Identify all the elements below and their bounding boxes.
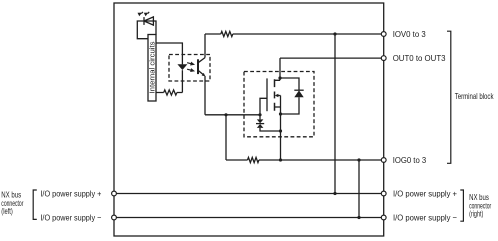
wire body-diode branch [280,78,299,114]
wire zener branch [260,115,281,131]
wire I/O power supply + line [116,193,381,195]
svg-text:I/O power supply −: I/O power supply − [393,213,457,223]
wire IOV line (collector to IOV0 terminal) [205,33,381,35]
wire IOG-to-minus vertical [358,160,360,218]
MOSFET channel segments [274,79,276,111]
terminal I/O power supply - right [381,215,386,220]
bracket terminal block [447,31,451,163]
wire opto LED drive [156,43,182,64]
wire OUT line (drain to OUT0 terminal) [280,57,381,59]
junction zener return [279,129,282,132]
svg-text:I/O power supply +: I/O power supply + [393,189,457,199]
wire indicator LED loop [137,21,156,39]
phototransistor base bar [197,59,199,74]
phototransistor collector [198,58,205,63]
wire IOG line (to IOG0 terminal) [226,159,381,161]
wire collector vertical [204,34,206,58]
MOSFET body arrowhead [275,94,279,97]
terminal IOV0 [381,32,386,37]
junction plus line [333,192,336,195]
MOSFET dashed box [244,72,314,137]
junction gate-zener [258,113,261,116]
wire drain vertical [275,58,281,80]
svg-text:Terminal block: Terminal block [455,91,494,101]
svg-text:IOV0 to 3: IOV0 to 3 [393,29,426,39]
svg-text:(right): (right) [469,209,483,219]
wire body stub [276,95,281,97]
indicator LED emission arrow 2 [144,13,149,17]
optocoupler LED triangle [177,64,187,70]
phototransistor emitter [198,70,204,75]
junction minus line [357,216,360,219]
internal circuits block [148,35,156,102]
bracket NX bus right [460,190,463,221]
junction diode anode-source [279,112,282,115]
phototransistor emitter arrowhead [202,73,206,76]
svg-text:I/O power supply +: I/O power supply + [40,189,101,199]
zener triangle lower [257,124,264,128]
indicator LED triangle [144,17,153,25]
outer block box [114,3,384,236]
indicator LED cathode bar [143,17,145,25]
svg-text:Internal circuits: Internal circuits [150,41,157,94]
bracket NX bus left [33,190,37,219]
terminal I/O power supply - left [112,215,117,220]
svg-text:I/O power supply −: I/O power supply − [40,213,101,223]
zener bar [256,123,264,125]
indicator LED emission arrow 1 [138,13,143,17]
optocoupler dashed box [169,55,210,82]
wire opto return lead [156,92,182,94]
junction drain-diode [278,76,281,79]
MOSFET gate plate [266,78,268,111]
svg-text:IOG0 to 3: IOG0 to 3 [393,155,427,165]
junction source-IOG [279,158,282,161]
opto light arrow 1 [187,61,196,67]
wire gate pulldown branch [225,115,227,160]
resistor R-opto [164,90,177,95]
resistor R-collector [221,31,233,36]
wire IOV-to-plus vertical [334,34,336,194]
terminal OUT0 [381,56,386,61]
junction IOV vertical [333,32,336,35]
wire source stub [275,106,281,108]
terminal IOG0 [381,158,386,163]
wire emitter vertical [204,76,206,115]
terminal I/O power supply + left [112,191,117,196]
wire I/O power supply - line [116,217,381,219]
wire source vertical [280,96,282,161]
junction IOG vertical [357,158,360,161]
svg-text:OUT0 to OUT3: OUT0 to OUT3 [393,53,446,63]
wire opto LED cathode [181,70,183,92]
body diode cathode bar [294,89,303,91]
opto light arrow 2 [187,67,196,73]
svg-text:(left): (left) [1,206,13,216]
zener triangle upper [257,119,264,123]
wire gate lead [205,98,267,115]
resistor R-IOG [248,157,259,162]
junction emitter branch [224,113,227,116]
terminal I/O power supply + right [381,191,386,196]
body diode triangle [294,90,303,97]
